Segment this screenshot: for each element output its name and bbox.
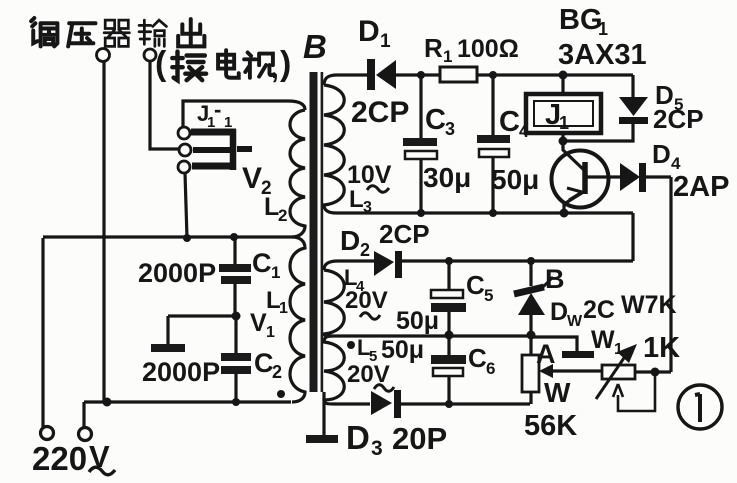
svg-text:220: 220 [32, 440, 87, 477]
svg-text:W7K: W7K [621, 291, 677, 319]
svg-text:): ) [280, 45, 291, 83]
svg-text:D: D [652, 139, 671, 169]
svg-text:1: 1 [380, 31, 391, 52]
svg-text:1: 1 [443, 47, 452, 66]
winding L4 [324, 270, 344, 336]
svg-text:3: 3 [445, 119, 455, 139]
transistor BG1 base bar [582, 162, 588, 194]
relay contact J1-1 bottom bar [192, 163, 236, 170]
svg-text:1: 1 [279, 300, 288, 317]
capacitor C5 plates [431, 290, 463, 298]
wire R1 to D5 column [477, 73, 633, 76]
svg-text:20V: 20V [345, 287, 388, 314]
wire mid rail y=237 [43, 235, 292, 238]
wire D3 to W bottom [401, 402, 530, 405]
svg-text:3AX31: 3AX31 [558, 39, 647, 71]
svg-text:2CP: 2CP [379, 219, 430, 249]
node J1 column junction [559, 71, 568, 80]
capacitor C1 top lead [233, 237, 236, 264]
node emitter junction [560, 209, 569, 218]
relay contact J1-1 middle actuator bar [193, 149, 252, 150]
relay J1 outer box [526, 94, 601, 133]
capacitor C1 plates [219, 264, 251, 272]
svg-text:-: - [214, 97, 221, 122]
capacitor C3 plates [403, 138, 437, 146]
diode D1 [367, 59, 375, 90]
svg-text:A: A [536, 339, 556, 369]
transformer core bar left [310, 72, 318, 392]
hanzi chu [178, 19, 204, 46]
svg-text:2AP: 2AP [673, 171, 729, 203]
transistor BG1 emitter lead with arrow [564, 191, 585, 213]
hanzi qi [104, 20, 129, 46]
wire terminal-B to J1-1 middle contact [150, 61, 178, 149]
svg-text:B: B [303, 28, 327, 65]
svg-text:2: 2 [360, 240, 370, 260]
wire V1 node to ground [168, 316, 236, 344]
capacitor C6 bottom lead [447, 376, 450, 404]
diode D4 [620, 163, 640, 191]
svg-text:3: 3 [371, 437, 383, 460]
capacitor C6 plates [431, 355, 466, 364]
svg-text:5: 5 [484, 286, 493, 305]
transistor BG1 body [552, 151, 609, 208]
svg-text:1K: 1K [643, 332, 680, 364]
diode D2 [374, 251, 394, 276]
resistor W bottom lead [529, 392, 532, 404]
svg-text:V: V [242, 162, 262, 195]
CHINESE subtitle jie-dian-shi [172, 50, 274, 80]
node mid rail zener junction [527, 331, 536, 340]
node bottom rail junction terminal-A column [103, 398, 112, 407]
node rail junction at J1-1 column [183, 234, 191, 242]
capacitor C3 bottom lead [419, 159, 422, 213]
node C6 bottom junction [445, 400, 453, 408]
node C2-bottom junction [232, 398, 240, 406]
transistor BG1 base lead [563, 142, 585, 171]
svg-text:D: D [550, 298, 568, 326]
hanzi tiao [31, 18, 57, 46]
relay contact J1-1 terminal 1 [178, 127, 190, 139]
svg-text:1: 1 [266, 324, 275, 341]
svg-text:2000P: 2000P [142, 357, 220, 387]
wire emitter bottom rail y=213 [336, 211, 633, 214]
hanzi dian [218, 50, 239, 78]
transistor BG1 collector lead [587, 175, 620, 178]
svg-text:30μ: 30μ [423, 162, 471, 193]
zener diode DW [529, 261, 532, 286]
wire A branch [531, 337, 577, 352]
wire D2 to emitter-return corner [402, 259, 633, 262]
svg-text:V: V [250, 309, 267, 337]
wire J1-1 terminal3 down to mid rail [185, 173, 187, 238]
capacitor C2 plates [221, 353, 251, 361]
potentiometer W1 body [602, 365, 635, 379]
wire emitter rail down to D2 rail [631, 213, 634, 261]
svg-text:2: 2 [272, 362, 282, 382]
svg-text:W: W [591, 326, 615, 354]
svg-text:6: 6 [486, 359, 495, 378]
svg-text:50μ: 50μ [491, 164, 539, 195]
resistor W body [522, 355, 539, 392]
svg-text:1: 1 [559, 113, 569, 133]
node C5 top junction [445, 257, 453, 265]
node mid rail C6 junction [445, 331, 454, 340]
svg-text:B: B [545, 264, 565, 294]
svg-text:1: 1 [614, 341, 623, 358]
node terminal-B [144, 49, 156, 61]
resistor R1 [440, 67, 477, 82]
node terminal-A [97, 49, 110, 62]
svg-text:D: D [340, 225, 360, 256]
wire W1 right lead [635, 370, 671, 373]
svg-text:D: D [358, 15, 380, 48]
CHINESE TITLE (hand-drawn glyphs) [31, 18, 204, 46]
wire top rail to D5 [631, 75, 634, 97]
svg-text:4: 4 [519, 121, 529, 141]
svg-text:1: 1 [271, 263, 280, 282]
node V1 junction [232, 312, 241, 321]
wire 220V terminal2 riser [82, 402, 85, 427]
svg-text:L: L [264, 193, 279, 221]
svg-text:3: 3 [363, 199, 372, 216]
wire D5 cathode to base junction [563, 124, 633, 141]
node 220V terminal 2 [79, 428, 92, 441]
svg-text:BG: BG [559, 4, 603, 36]
wire J1-1 terminal1 up to L2 top [183, 101, 305, 127]
diode D3 [371, 391, 392, 415]
svg-text:1: 1 [598, 19, 608, 39]
svg-text:(: ( [155, 45, 167, 83]
wire core to ground [322, 392, 325, 436]
potentiometer W1 diagonal arrow [596, 355, 626, 399]
svg-text:C: C [254, 348, 274, 378]
wire bottom rail y=402 [84, 400, 291, 403]
svg-text:10V: 10V [347, 161, 392, 189]
svg-text:W: W [567, 313, 583, 330]
wire terminal-A down to bottom rail [102, 62, 105, 402]
node C4 bottom junction [489, 209, 497, 217]
diode D5 [619, 97, 648, 116]
ground (V1 circuit) [151, 344, 185, 352]
wire mid rail y=335 [332, 334, 531, 337]
relay J1 inner box [534, 101, 593, 126]
capacitor C2 bottom lead [234, 374, 237, 402]
capacitor C3 top lead [419, 75, 422, 138]
svg-text:C: C [466, 270, 485, 300]
node W1 right junction [651, 368, 660, 377]
node C3 bottom junction [417, 209, 425, 217]
svg-text:2C: 2C [583, 296, 615, 324]
resistor W wiper arrow [546, 369, 602, 372]
relay contact J1-1 bridge vertical bar [230, 129, 237, 170]
winding L5 polarity dot [347, 341, 355, 349]
svg-text:C: C [468, 343, 487, 373]
svg-text:C: C [252, 248, 272, 278]
node rail junction at C1 column [230, 233, 238, 241]
svg-text:R: R [424, 33, 443, 63]
wire L3 top lead [324, 75, 367, 85]
hanzi shi [244, 52, 274, 77]
capacitor C6 top lead [447, 335, 450, 355]
svg-text:L: L [349, 186, 364, 213]
svg-text:C: C [499, 106, 520, 138]
svg-text:D: D [346, 419, 370, 456]
wire D1 to R1 [396, 73, 440, 76]
svg-text:2CP: 2CP [351, 96, 409, 129]
svg-text:20P: 20P [392, 421, 447, 456]
wire L4 top lead [324, 261, 374, 270]
potentiometer W1 wiper loop [613, 374, 655, 411]
hanzi jie [172, 52, 206, 81]
node D1-R1 junction [417, 71, 425, 79]
wire top rail to relay J1 [561, 75, 564, 94]
node R1-C4 junction [489, 71, 497, 79]
contact bar A [562, 351, 594, 358]
capacitor C5 bottom lead [447, 312, 450, 335]
svg-text:2000P: 2000P [138, 258, 216, 288]
wire J1 to base junction [561, 133, 564, 141]
capacitor C2 top lead [234, 316, 237, 353]
winding L5 [324, 336, 344, 404]
node zener top junction [527, 257, 535, 265]
svg-text:2: 2 [278, 206, 287, 225]
winding L1 polarity dot [277, 390, 285, 398]
capacitor C1 bottom lead [233, 284, 236, 316]
wire 220V terminal1 riser [41, 238, 44, 427]
svg-text:56K: 56K [524, 410, 577, 442]
svg-text:100Ω: 100Ω [457, 35, 519, 63]
wire L5 bottom lead [334, 402, 370, 405]
node 220V terminal 1 [41, 427, 54, 440]
svg-text:2CP: 2CP [653, 104, 704, 134]
capacitor C5 top lead [447, 261, 450, 290]
svg-text:1: 1 [224, 114, 232, 131]
svg-text:C: C [425, 104, 446, 136]
relay contact J1-1 terminal 3 [178, 161, 190, 173]
capacitor C4 plates [477, 135, 510, 143]
node base junction [559, 137, 568, 146]
wire D4 cathode to right rail [646, 177, 671, 372]
relay contact J1-1 terminal 2 [179, 144, 191, 156]
hanzi ya [68, 23, 95, 46]
transformer core bar right [321, 72, 324, 392]
svg-text:50μ: 50μ [381, 336, 424, 364]
capacitor C4 top lead [491, 75, 494, 135]
winding L2 [290, 110, 305, 237]
resistor W top lead [529, 335, 532, 355]
figure marker circle I [678, 385, 722, 429]
hanzi shu [139, 20, 166, 46]
capacitor C4 bottom lead [491, 157, 494, 213]
svg-text:20V: 20V [347, 361, 390, 388]
winding L1 [290, 237, 305, 402]
svg-text:W: W [544, 377, 571, 408]
svg-text:50μ: 50μ [396, 307, 439, 335]
winding L3 [324, 85, 344, 213]
ground (core shield) [306, 435, 338, 443]
relay contact J1-1 top bar [191, 129, 236, 136]
